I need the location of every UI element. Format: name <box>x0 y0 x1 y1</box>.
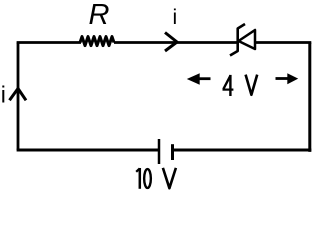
label 10 V : digit 1 <box>136 168 140 189</box>
label 10 V : letter V <box>163 168 176 188</box>
wire bottom left segment <box>17 149 159 152</box>
label 10 V : digit 0 <box>144 169 151 188</box>
battery short plate (negative) <box>171 144 174 160</box>
wire top left segment <box>17 41 81 44</box>
wire top right segment <box>255 41 311 44</box>
label 4 V : letter V <box>246 75 258 95</box>
battery tall plate (positive) <box>158 139 161 164</box>
label 4 V : digit 4 <box>223 75 234 96</box>
resistor R <box>80 37 114 46</box>
svg-text:i: i <box>1 81 6 107</box>
current arrow i (left, pointing up) <box>10 89 27 101</box>
wire top middle segment <box>114 41 237 44</box>
wire bottom right segment <box>173 149 312 152</box>
zener diode D triangle <box>239 30 256 49</box>
svg-text:i: i <box>173 6 178 29</box>
wire right vertical <box>308 43 311 152</box>
svg-text:R: R <box>89 0 110 31</box>
zener diode D cathode bar with bent ends <box>230 24 245 56</box>
voltage arrow left (4 V) <box>187 73 200 84</box>
voltage arrow right (4 V) <box>287 73 298 84</box>
wire left vertical <box>17 43 20 151</box>
current arrow i (top, pointing right) <box>165 33 177 52</box>
